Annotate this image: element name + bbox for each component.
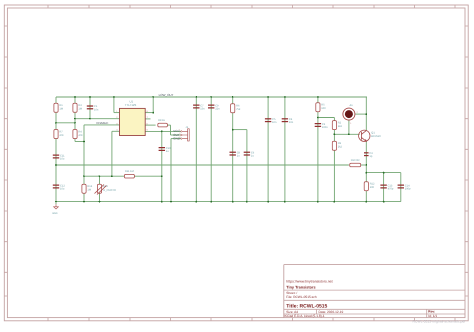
wire pin6 to R8	[145, 124, 155, 126]
junction	[89, 96, 91, 98]
svg-text:A1: A1	[350, 104, 354, 107]
svg-text:File: RCWL-0515.sch: File: RCWL-0515.sch	[286, 295, 317, 299]
wire pin4 vertical	[111, 131, 113, 176]
wire mid node rail	[84, 175, 125, 177]
svg-text:100n: 100n	[322, 126, 328, 129]
svg-text:10u: 10u	[60, 158, 65, 161]
svg-text:1u: 1u	[237, 155, 240, 158]
wire long feedback rail	[56, 164, 349, 166]
svg-text:R_PHOTO: R_PHOTO	[103, 189, 116, 192]
svg-text:10u: 10u	[60, 188, 65, 191]
wire R5/C2 column	[317, 97, 319, 202]
resistor R6	[231, 104, 241, 113]
resistor R4	[73, 130, 83, 139]
wire R8 corner down	[170, 125, 172, 135]
svg-text:https://www.tinytransistors.ne: https://www.tinytransistors.net	[286, 280, 332, 284]
svg-text:LOW_OUT: LOW_OUT	[159, 93, 174, 97]
junction	[111, 175, 113, 177]
svg-text:1p: 1p	[369, 155, 372, 158]
wire C10 column	[161, 131, 163, 201]
transistor Q1	[359, 130, 382, 141]
wire R1-R3 bottom link	[56, 122, 75, 124]
resistor R10	[350, 159, 361, 167]
capacitor C4	[282, 118, 294, 124]
svg-text:100: 100	[370, 186, 375, 189]
capacitor C12	[53, 184, 66, 190]
junction	[161, 201, 163, 203]
resistor R14 photo	[97, 184, 108, 193]
capacitor C8	[230, 151, 241, 157]
junction	[74, 96, 76, 98]
wire C13 column	[383, 173, 385, 202]
svg-text:Title: RCWL-0515: Title: RCWL-0515	[286, 304, 327, 310]
junction	[161, 175, 163, 177]
capacitor C3	[364, 152, 373, 158]
wire C5 column	[267, 97, 269, 202]
wire pin5 to VCC pin	[145, 130, 181, 132]
svg-text:RCWL-0515-original-schematic.p: RCWL-0515-original-schematic.pdf	[413, 320, 466, 324]
junction	[99, 175, 101, 177]
wire antenna to collector	[355, 113, 366, 115]
wire column C1	[89, 97, 91, 119]
wire pin1 drop	[113, 97, 115, 113]
junction	[99, 201, 101, 203]
svg-text:1k2: 1k2	[338, 125, 343, 128]
svg-text:2k2: 2k2	[338, 146, 343, 149]
wire C14 column	[400, 173, 402, 202]
junction	[284, 96, 286, 98]
svg-text:47k: 47k	[78, 134, 83, 137]
junction	[365, 201, 367, 203]
wire R2/R9 column	[333, 118, 335, 202]
junction	[83, 201, 85, 203]
svg-text:1u: 1u	[166, 150, 169, 153]
junction	[210, 201, 212, 203]
junction	[232, 201, 234, 203]
antenna A1	[343, 104, 359, 125]
wire R11 to C10 column	[134, 175, 162, 177]
capacitor C10	[159, 147, 172, 153]
svg-text:R11 1M: R11 1M	[125, 170, 134, 173]
svg-text:1: 1	[350, 122, 352, 125]
resistor R3	[73, 103, 82, 112]
capacitor C11	[53, 154, 65, 160]
wire collector drop	[365, 97, 367, 131]
wire emitter node rail	[366, 172, 401, 174]
junction	[74, 118, 76, 120]
resistor R5	[316, 103, 326, 112]
junction	[55, 201, 57, 203]
capacitor C9	[208, 104, 220, 110]
capacitor C13	[380, 184, 394, 190]
junction	[317, 96, 319, 98]
junction	[161, 131, 163, 133]
wire R6/C8 column	[232, 97, 234, 202]
junction	[74, 122, 76, 124]
junction	[152, 112, 154, 114]
junction	[365, 172, 367, 174]
junction	[334, 201, 336, 203]
svg-text:1M: 1M	[87, 189, 91, 192]
svg-text:1M: 1M	[59, 108, 63, 111]
svg-text:ENABLE: ENABLE	[97, 121, 109, 125]
wire ENABLE	[84, 124, 120, 126]
wire R10 right	[361, 164, 366, 166]
resistor R12	[364, 182, 375, 191]
junction	[267, 201, 269, 203]
photoresistor arrows R14	[95, 185, 107, 195]
wire column B	[74, 97, 76, 142]
wire C4 column	[284, 97, 286, 202]
svg-text:BFR520: BFR520	[371, 135, 381, 138]
svg-text:15n: 15n	[200, 108, 205, 111]
junction	[334, 133, 336, 135]
wire pin7 stub	[145, 118, 150, 120]
svg-text:47k: 47k	[59, 134, 64, 137]
svg-text:1M: 1M	[78, 108, 82, 111]
junction	[83, 141, 85, 143]
svg-text:R8 1k: R8 1k	[158, 119, 165, 122]
wire VCC top rail	[56, 96, 367, 98]
junction	[113, 96, 115, 98]
svg-text:10n: 10n	[94, 108, 99, 111]
junction	[152, 96, 154, 98]
capacitor C6	[244, 151, 255, 157]
resistor R2	[332, 121, 342, 130]
svg-text:75k: 75k	[236, 108, 241, 111]
junction	[317, 117, 319, 119]
junction	[195, 201, 197, 203]
wire LOW_OUT drop	[152, 97, 154, 113]
frame row ticks	[4, 26, 468, 296]
wire ENABLE vertical	[83, 125, 85, 176]
wire R12 column	[365, 173, 367, 202]
resistor R1	[54, 103, 63, 112]
junction	[365, 113, 367, 115]
svg-text:22n: 22n	[215, 108, 220, 111]
wire J1 GND column	[170, 139, 172, 202]
resistor R8	[158, 119, 168, 127]
junction	[383, 172, 385, 174]
junction	[232, 129, 234, 131]
wire antenna bottom	[348, 120, 350, 134]
wire pin4 stub	[112, 130, 120, 132]
resistor R11	[124, 170, 134, 178]
svg-text:TTL712S: TTL712S	[125, 103, 137, 107]
junction	[267, 96, 269, 98]
svg-text:GND: GND	[173, 136, 181, 140]
wire R5 to R2	[318, 117, 335, 119]
svg-text:10n: 10n	[272, 121, 277, 124]
junction	[89, 118, 91, 120]
resistor R13	[82, 184, 93, 193]
wire to pin2	[75, 118, 120, 120]
svg-text:100p: 100p	[405, 188, 411, 191]
junction	[55, 164, 57, 166]
wire C9 column	[210, 97, 212, 202]
capacitor C2	[315, 123, 329, 129]
svg-text:KiCad E.D.A. kicad (5.1.8)-1: KiCad E.D.A. kicad (5.1.8)-1	[285, 314, 325, 318]
wire pin1 stub	[114, 112, 120, 114]
wire R4 bottom link	[75, 141, 84, 143]
junction	[317, 201, 319, 203]
junction	[170, 201, 172, 203]
wire left column A	[55, 97, 57, 202]
wire pin8 stub	[145, 112, 153, 114]
junction	[284, 201, 286, 203]
wire R8 right	[167, 124, 171, 126]
junction	[246, 201, 248, 203]
junction	[383, 201, 385, 203]
wire ground rail	[56, 201, 401, 203]
wire GND pin	[171, 138, 181, 140]
junction	[210, 96, 212, 98]
capacitor C7	[193, 104, 205, 110]
resistor R7	[54, 130, 64, 139]
junction	[348, 133, 350, 135]
resistor R9	[332, 141, 342, 150]
svg-text:10n: 10n	[289, 121, 294, 124]
title block box	[284, 265, 465, 318]
junction	[55, 122, 57, 124]
wire R14 column	[99, 176, 101, 201]
wire to C6	[233, 129, 247, 131]
capacitor C14	[398, 184, 412, 190]
wire R13 column	[83, 176, 85, 201]
svg-text:R10 0R: R10 0R	[351, 159, 360, 162]
svg-text:GND: GND	[52, 212, 58, 215]
connector J1	[179, 126, 189, 141]
wire C7 column	[195, 97, 197, 202]
junction	[195, 96, 197, 98]
svg-text:Tiny Transistors: Tiny Transistors	[286, 286, 315, 290]
junction	[232, 96, 234, 98]
wire base	[334, 133, 359, 135]
wire emitter drop	[365, 142, 367, 173]
wire C6 column	[246, 130, 248, 202]
ground	[52, 202, 58, 215]
junction	[365, 164, 367, 166]
wire to OUT pin	[171, 134, 181, 136]
capacitor C5	[265, 118, 277, 124]
junction	[83, 175, 85, 177]
capacitor C1	[87, 105, 99, 111]
svg-text:1u: 1u	[251, 155, 254, 158]
svg-text:470p: 470p	[388, 188, 394, 191]
title block row lines	[284, 290, 465, 318]
svg-text:Id: 1/1: Id: 1/1	[428, 314, 437, 318]
op-amp U1 TTL712S	[120, 100, 146, 136]
svg-text:100: 100	[321, 107, 326, 110]
